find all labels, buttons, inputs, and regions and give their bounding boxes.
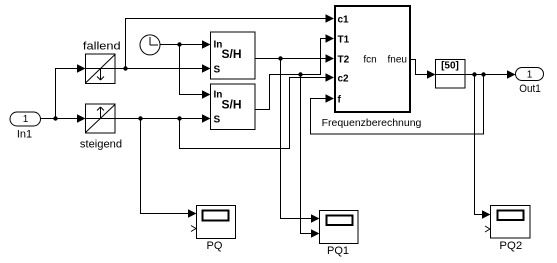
block S/H 2 <box>211 84 256 130</box>
svg-text:S/H: S/H <box>221 47 241 61</box>
inport In1 <box>10 112 41 141</box>
junction node S/H1 branch <box>278 56 282 60</box>
wire fallend output to S of S/H1 <box>115 68 203 70</box>
wire branch down to PQ2 <box>475 75 484 215</box>
block steigend <box>80 104 122 151</box>
svg-text:T2: T2 <box>338 55 350 66</box>
wire fallend branch up to c1 <box>126 19 327 69</box>
junction node PQ2 branch <box>472 72 476 76</box>
junction node f branch <box>481 72 485 76</box>
wire clock output to In of S/H1 <box>160 44 203 46</box>
outport Out1 <box>516 68 544 96</box>
wire steigend branch to c2 <box>180 78 327 149</box>
arrowhead into steigend <box>77 114 86 122</box>
wire riser junction to fallend input <box>56 69 78 119</box>
svg-text:In1: In1 <box>17 129 32 141</box>
svg-text:PQ2: PQ2 <box>499 240 522 252</box>
scope PQ <box>191 206 236 253</box>
arrowhead into T2 <box>326 54 335 62</box>
arrowhead into [50] <box>427 70 436 78</box>
wire In1 to junction and steigend <box>41 118 78 120</box>
block S/H 1 <box>211 32 256 79</box>
block [50] <box>436 60 466 89</box>
arrowhead into c1 <box>326 14 335 22</box>
arrowhead into PQ1 top <box>311 214 320 222</box>
junction node clock branch <box>177 42 181 46</box>
arrowhead into S/H2 S <box>202 114 211 122</box>
svg-text:c1: c1 <box>338 15 350 26</box>
junction node steigend branch c2 <box>177 116 181 120</box>
arrowhead into PQ2 <box>482 210 491 218</box>
scope PQ1 <box>320 211 359 258</box>
junction node fallend branch <box>123 66 127 70</box>
svg-text:S/H: S/H <box>221 98 241 112</box>
arrowhead into fallend <box>77 64 86 72</box>
arrowhead into T1 <box>326 34 335 42</box>
svg-text:PQ1: PQ1 <box>327 245 349 257</box>
svg-text:fneu: fneu <box>388 55 407 66</box>
arrowhead into PQ1 bottom <box>311 229 320 237</box>
wire clock branch down to In of S/H2 <box>180 45 203 95</box>
wire S/H1 branch down to PQ1 top input <box>281 59 313 219</box>
arrowhead into S/H1 S <box>202 64 211 72</box>
arrowhead into c2 <box>326 73 335 81</box>
wire steigend output to S of S/H2 <box>115 118 203 120</box>
wire feedback branch to f input <box>311 75 484 135</box>
arrowhead into f <box>326 94 335 102</box>
svg-text:PQ: PQ <box>207 240 223 252</box>
wire S/H2 branch down to PQ1 bottom input <box>301 75 313 234</box>
svg-text:S: S <box>214 65 221 76</box>
arrowhead into Out1 <box>507 70 516 78</box>
block fallend <box>83 41 121 84</box>
svg-text:Frequenzberechnung: Frequenzberechnung <box>322 117 422 129</box>
svg-text:1: 1 <box>527 70 533 81</box>
svg-text:c2: c2 <box>338 74 350 85</box>
svg-text:steigend: steigend <box>80 139 122 151</box>
junction node steigend branch PQ <box>138 116 142 120</box>
svg-text:[50]: [50] <box>441 61 459 72</box>
arrowhead into PQ <box>188 209 197 217</box>
junction node In1 branch <box>53 116 57 120</box>
svg-text:1: 1 <box>23 114 29 125</box>
wire S/H2 output to T1 <box>255 39 326 110</box>
svg-text:fallend: fallend <box>83 41 121 53</box>
svg-text:Out1: Out1 <box>519 83 541 95</box>
wire steigend branch down to PQ <box>141 119 190 214</box>
wire S/H1 output to T2 <box>255 58 326 60</box>
junction node S/H2 branch <box>298 72 302 76</box>
wire fcn output to [50] block <box>410 60 428 75</box>
subsystem Frequenzberechnung <box>322 6 422 129</box>
scope PQ2 <box>485 206 530 253</box>
clock <box>140 35 160 55</box>
svg-text:S: S <box>214 115 221 126</box>
svg-text:fcn: fcn <box>363 55 376 66</box>
arrowhead into S/H2 In <box>202 90 211 98</box>
wire [50] output to Out1 <box>465 74 508 76</box>
svg-text:T1: T1 <box>338 35 350 46</box>
arrowhead into S/H1 In <box>202 40 211 48</box>
